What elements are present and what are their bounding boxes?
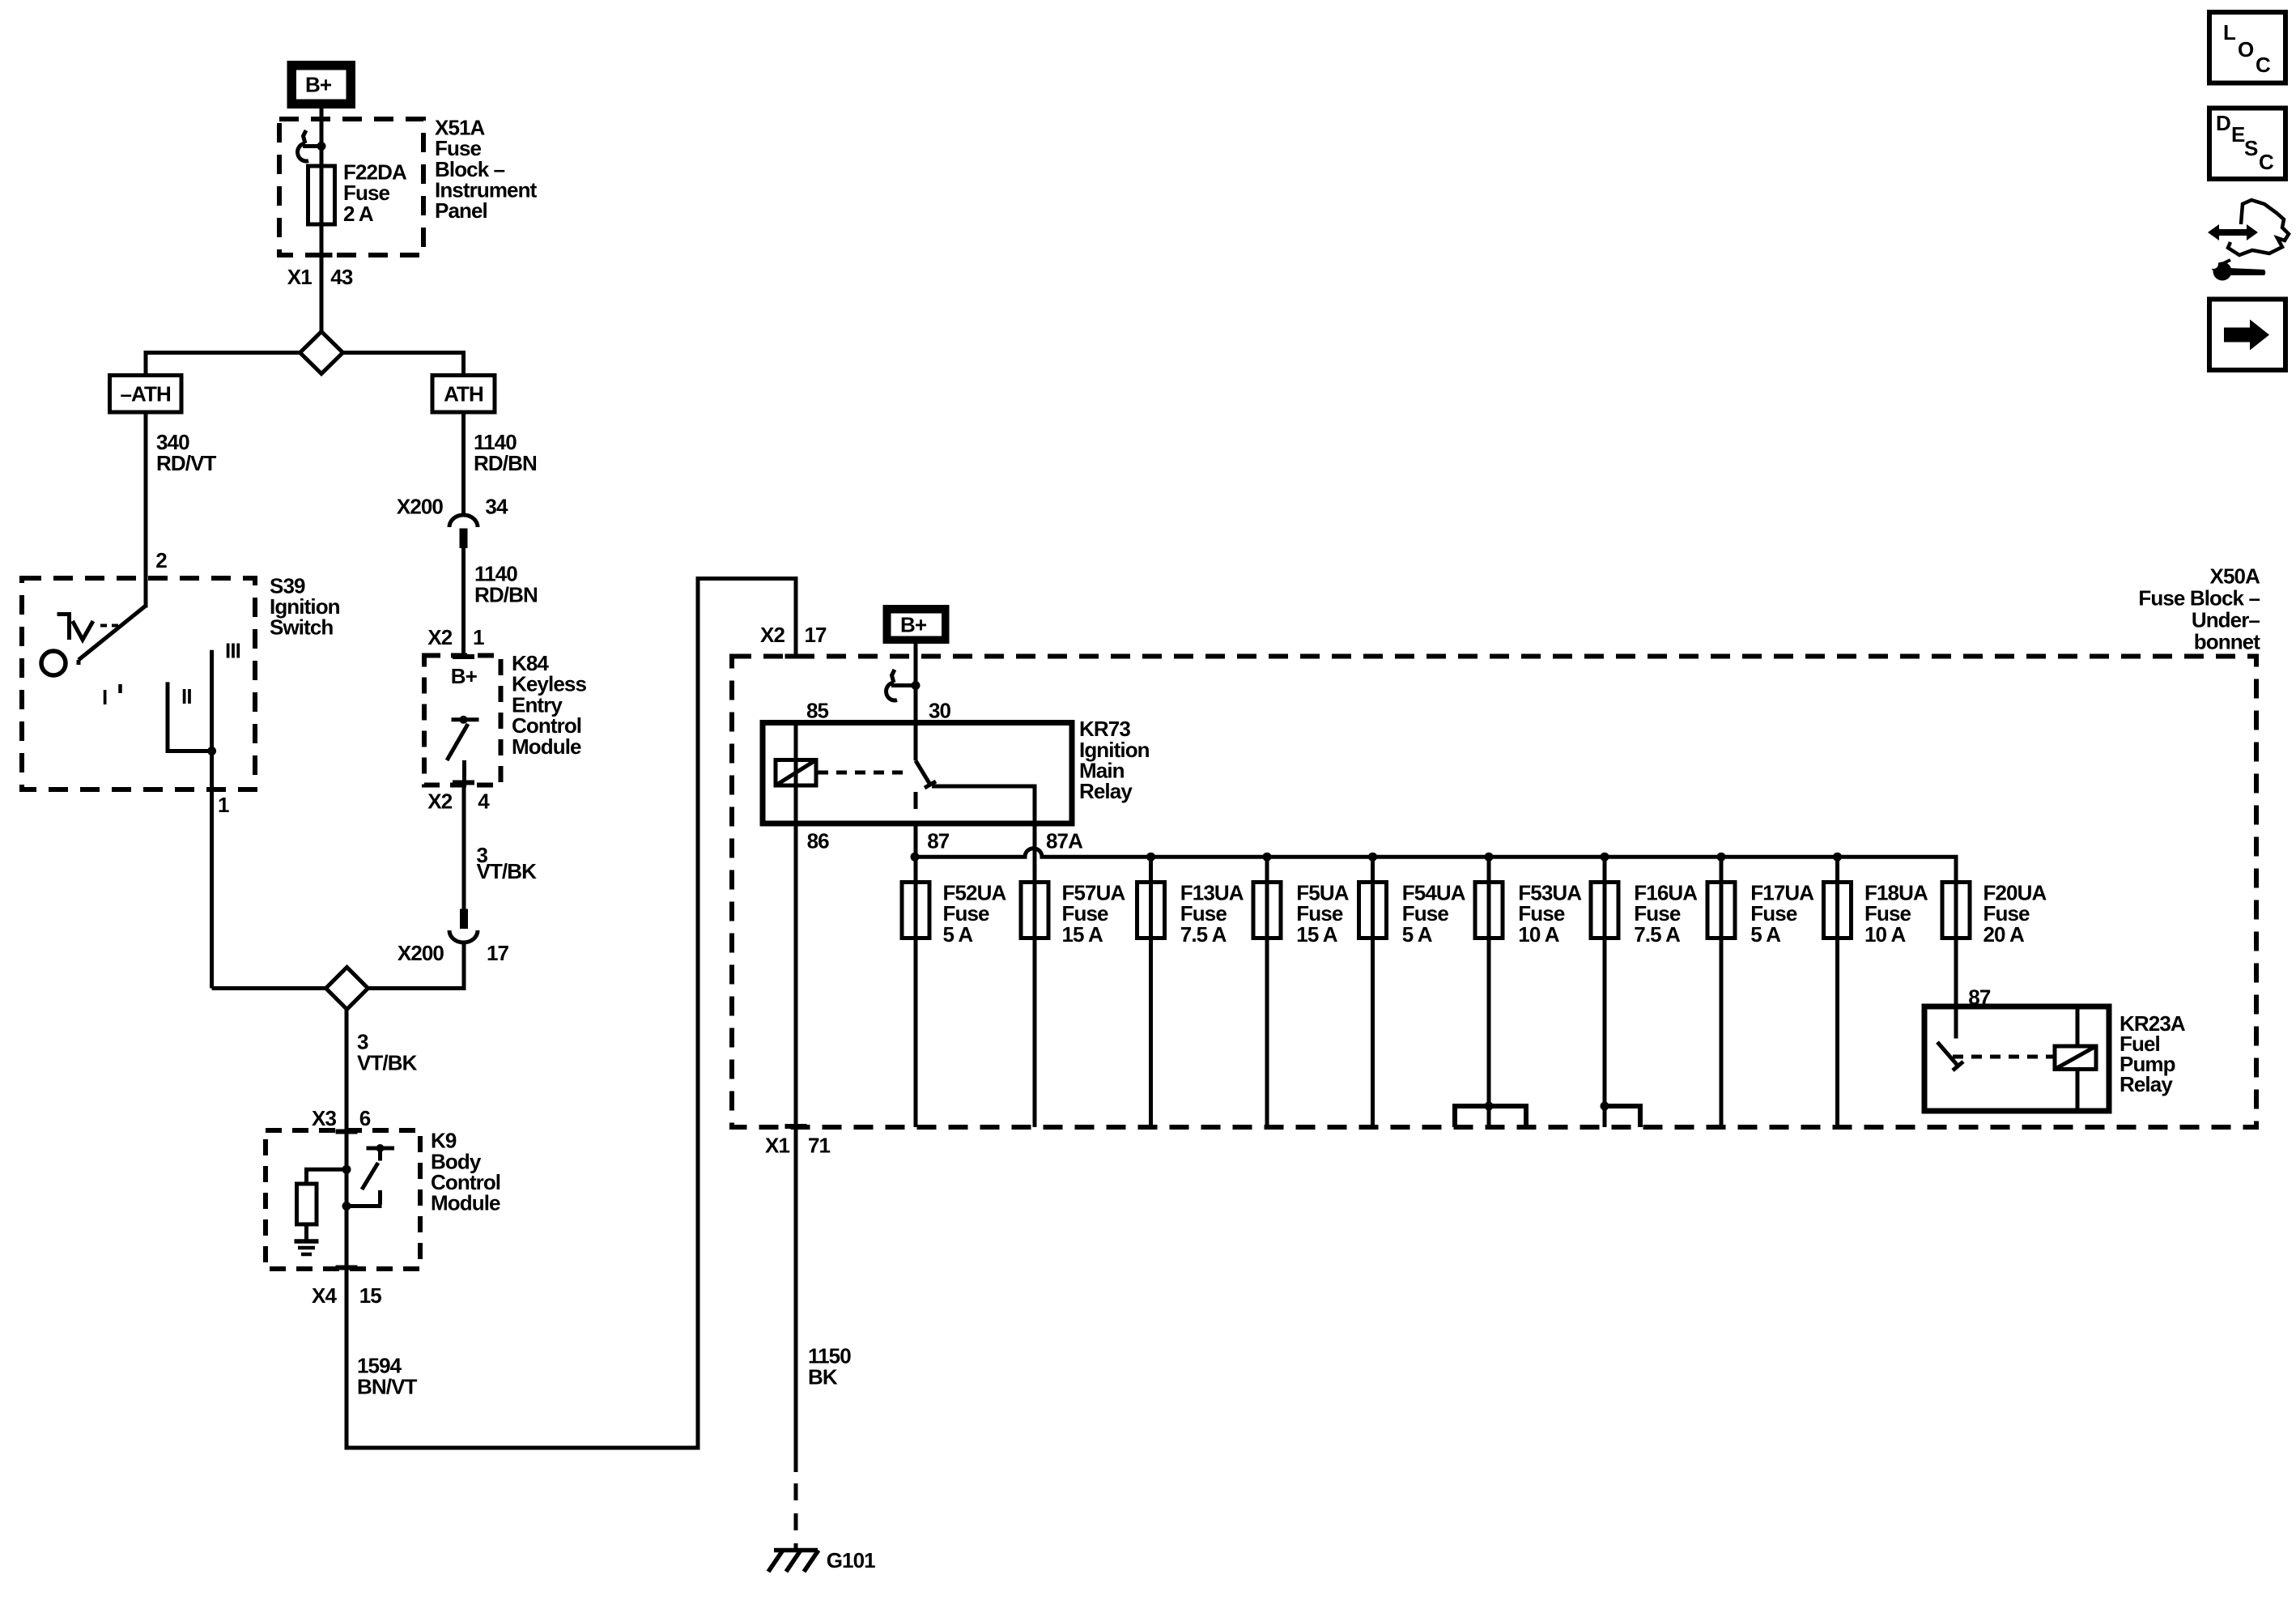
svg-text:7.5 A: 7.5 A [1180, 922, 1227, 947]
svg-text:85: 85 [806, 699, 829, 723]
svg-text:15 A: 15 A [1062, 922, 1103, 947]
KR73 switch fixed contact stub [914, 792, 918, 809]
KR73 contact to pin 87A [932, 786, 1035, 823]
wire label 3 VT/BK (lower) [357, 1030, 418, 1075]
KR23A switch contact tick [1953, 1062, 1963, 1070]
wire label 1140 RD/BN (lower) [474, 562, 538, 607]
svg-text:2 A: 2 A [343, 202, 374, 226]
S39 position III contact line / output wire [210, 650, 214, 989]
svg-text:71: 71 [808, 1134, 831, 1158]
svg-text:34: 34 [485, 495, 508, 519]
wire relay pin 86 to X1-71 [794, 823, 798, 1126]
svg-text:I: I [102, 685, 107, 709]
KR23A coil wire [2076, 1006, 2080, 1111]
label F16UA Fuse 7.5 A [1634, 880, 1698, 946]
K9 junction dot lower [342, 1202, 351, 1211]
KR23A switch arm [1937, 1042, 1958, 1066]
KR73 switch arm [916, 760, 930, 785]
wire fuse F54UA output [1371, 938, 1375, 1128]
svg-text:B+: B+ [451, 664, 478, 688]
svg-text:BN/VT: BN/VT [357, 1374, 418, 1398]
label F17UA Fuse 5 A [1750, 880, 1814, 946]
K9 switch lower contact wire [347, 1190, 382, 1206]
pin label 87 (KR73) [927, 829, 950, 853]
fuse block X50A dashed outline [732, 657, 2256, 1128]
icon box DESC [2209, 109, 2285, 180]
label F13UA Fuse 7.5 A [1180, 880, 1244, 946]
pin label X1 | 43 [287, 265, 353, 289]
K9 internal ground symbol [295, 1241, 319, 1254]
svg-text:BK: BK [808, 1364, 838, 1389]
wire S39 output to splice diamond 2 [212, 986, 326, 990]
wire down to ATH [461, 351, 466, 376]
body control module K9 dashed outline [266, 1130, 420, 1269]
S39 position label I [102, 684, 121, 709]
connector pin tick X3-6 [336, 1130, 358, 1134]
F16UA output fork (double pin) [1605, 1106, 1640, 1127]
K9 switch fixed contact bar [367, 1148, 395, 1161]
label F18UA Fuse 10 A [1864, 880, 1928, 946]
S39 lock position symbol [57, 615, 119, 640]
svg-text:VT/BK: VT/BK [477, 859, 538, 883]
label F5UA Fuse 15 A [1296, 880, 1349, 946]
junction dot pin 87 bus [911, 853, 920, 862]
label X50A Fuse Block - Under-bonnet [2138, 564, 2260, 654]
pin label X1 | 71 [765, 1134, 831, 1158]
svg-text:10 A: 10 A [1864, 922, 1906, 947]
label F52UA Fuse 5 A [943, 880, 1007, 946]
S39 position label II [181, 684, 192, 709]
connector pin tick X1-71 [785, 1124, 807, 1129]
wire fuse F16UA output [1603, 938, 1607, 1128]
S39 position label III [225, 639, 240, 663]
wire bus through fuse F5UA [1265, 857, 1269, 939]
pin label 87 (KR23A) [1968, 985, 1991, 1010]
pin label 1 (S39) [218, 793, 229, 817]
wire fuse F20UA to relay KR23A pin 87 [1954, 938, 1958, 1007]
svg-text:4: 4 [478, 789, 490, 814]
S39 position II contact line [168, 682, 212, 751]
connector pin tick X2-4 [453, 781, 474, 785]
pin label 87A (KR73) [1046, 829, 1083, 853]
svg-text:B+: B+ [900, 613, 927, 637]
wire bus through fuse F13UA [1149, 857, 1153, 939]
wire label 3 VT/BK (upper) [477, 843, 538, 883]
K84 switch fixed contact bar [452, 717, 479, 721]
svg-text:G101: G101 [827, 1548, 875, 1572]
wire bus through fuse F16UA [1603, 857, 1607, 939]
junction dot bus tap F5UA [1263, 853, 1272, 862]
svg-text:Module: Module [431, 1191, 500, 1215]
icon box arrow (next page) [2209, 300, 2285, 371]
fuse F16UA symbol [1591, 883, 1618, 938]
svg-text:43: 43 [330, 265, 353, 289]
svg-text:X50A: X50A [2210, 564, 2261, 589]
connector pin tick X1-43 [311, 253, 333, 257]
junction dot S39 output [207, 747, 216, 755]
label F54UA Fuse 5 A [1402, 880, 1466, 946]
wire B+ to X51A fuse block [320, 109, 324, 121]
wire label 340 RD/VT [156, 430, 217, 475]
svg-text:S: S [2244, 136, 2258, 160]
junction dot bus tap F53UA [1485, 853, 1494, 862]
wire K9 output run to fuse block X2-17 [347, 579, 796, 1449]
fuse F17UA symbol [1707, 883, 1735, 938]
power symbol B+ (fuse block feed) [883, 605, 950, 644]
label S39 Ignition Switch [270, 573, 340, 639]
pin label X2 | 4 (K84 bottom) [427, 789, 490, 814]
wire label 1150 BK [808, 1344, 851, 1389]
junction dot bus tap F54UA [1368, 853, 1377, 862]
KR23A coil winding symbol [2055, 1046, 2096, 1070]
svg-text:Switch: Switch [270, 615, 333, 640]
icon vehicle profile with arrow and wrench [2208, 200, 2289, 281]
fuse F57UA symbol [1021, 883, 1048, 938]
icon box LOC [2209, 12, 2285, 83]
pin label X3 | 6 (K9 top) [312, 1106, 371, 1130]
power symbol B+ battery feed (top left) [287, 61, 356, 109]
wire ATH to connector X200-34 [461, 412, 466, 515]
wire relay pin 87A to fuse F57UA [1033, 823, 1037, 939]
K9 input wire [345, 1131, 349, 1270]
svg-text:VT/BK: VT/BK [357, 1050, 418, 1074]
svg-text:Relay: Relay [1079, 779, 1133, 803]
wire bus through fuse F18UA [1835, 857, 1839, 939]
svg-text:30: 30 [929, 699, 951, 723]
junction dot bus tap F13UA [1146, 853, 1155, 862]
KR23A coil-switch link (dashed) [1953, 1055, 2053, 1059]
svg-text:17: 17 [487, 941, 509, 965]
wire bus through fuse F54UA [1371, 857, 1375, 939]
junction dot at B+ feed [912, 681, 921, 690]
battery feed hook symbol (fuse block) [887, 670, 916, 700]
ground symbol G101 [768, 1551, 818, 1572]
KR23A switch pin87 lead [1954, 1006, 1958, 1039]
label K84 Keyless Entry Control Module [512, 651, 586, 759]
keyless entry control module K84 dashed outline [424, 656, 501, 785]
fuse F18UA symbol [1824, 883, 1852, 938]
pin label X2 | 17 (fuse block) [760, 623, 827, 647]
wire X1-71 to ground (solid) [794, 1126, 798, 1472]
K9 switch arm [362, 1163, 378, 1189]
svg-text:1: 1 [218, 793, 229, 817]
K9 junction dot upper [342, 1165, 351, 1174]
svg-text:X4: X4 [312, 1283, 337, 1308]
pin label 2 (S39) [155, 548, 167, 572]
svg-text:15 A: 15 A [1296, 922, 1337, 947]
svg-text:RD/BN: RD/BN [474, 582, 538, 606]
wire fuse F18UA output [1835, 938, 1839, 1128]
svg-text:15: 15 [359, 1283, 382, 1308]
svg-text:87: 87 [927, 829, 950, 853]
svg-text:–ATH: –ATH [121, 382, 171, 406]
svg-text:5 A: 5 A [1402, 922, 1433, 947]
wire splice to right branch [343, 351, 465, 355]
K9 resistor to ground wire [304, 1224, 308, 1241]
svg-text:ATH: ATH [444, 382, 483, 406]
S39 contact circle [41, 651, 66, 675]
svg-text:C: C [2256, 53, 2271, 77]
svg-text:II: II [181, 684, 192, 709]
svg-text:C: C [2259, 150, 2274, 174]
svg-text:X200: X200 [398, 941, 444, 965]
splice diamond S (top) [300, 332, 343, 374]
connector pin tick X4-15 [336, 1266, 358, 1270]
junction dot bus tap F16UA [1601, 853, 1609, 862]
ignition main relay KR73 outline [763, 723, 1072, 824]
K9 resistor branch wire [307, 1169, 347, 1184]
label KR23A Fuel Pump Relay [2120, 1011, 2186, 1096]
fuse F22DA symbol [308, 166, 335, 224]
K84 output pin wire [462, 760, 466, 785]
wire fuse F57UA output [1033, 938, 1037, 1128]
fuel pump relay KR23A outline [1924, 1006, 2109, 1111]
label F22DA Fuse 2 A [343, 160, 407, 226]
fuse F20UA symbol [1942, 883, 1970, 938]
label F53UA Fuse 10 A [1518, 880, 1582, 946]
junction dot F16UA fork [1601, 1102, 1609, 1111]
svg-text:6: 6 [359, 1106, 371, 1130]
connector X200 pin 34 (upper half) [449, 515, 478, 548]
K84 internal B+ label [451, 664, 478, 688]
fuse block X51A dashed outline [279, 119, 423, 255]
wire fuse F17UA output [1720, 938, 1724, 1128]
fuse F52UA symbol [902, 883, 929, 938]
KR73 coil-switch link (dashed) [818, 771, 910, 775]
svg-text:20 A: 20 A [1983, 922, 2025, 947]
svg-text:X2: X2 [427, 625, 452, 649]
svg-text:X1: X1 [287, 265, 312, 289]
wire X200 to K84 pin X2-1 [461, 548, 466, 656]
KR73 switch pin30 lead [914, 723, 918, 761]
wire to ground (dashed) [794, 1483, 798, 1550]
node box ATH [432, 376, 495, 413]
fuse F54UA symbol [1359, 883, 1387, 938]
wire through fuse F22DA [320, 121, 324, 255]
wire K84 to connector X200-17 [462, 785, 466, 909]
svg-text:III: III [225, 639, 240, 663]
svg-text:X200: X200 [397, 495, 444, 519]
junction dot bus tap F18UA [1833, 853, 1842, 862]
wire B+ down to relay pin 30 [914, 644, 918, 723]
wire X1-43 to splice diamond [320, 255, 324, 332]
label X51A Fuse Block - Instrument Panel [435, 115, 538, 223]
svg-text:10 A: 10 A [1518, 922, 1559, 947]
svg-text:Panel: Panel [435, 198, 487, 223]
wire fuse F53UA output [1487, 938, 1491, 1128]
svg-text:O: O [2238, 37, 2254, 62]
svg-text:X2: X2 [427, 789, 452, 814]
svg-text:X2: X2 [760, 623, 784, 647]
svg-text:D: D [2216, 111, 2230, 135]
pin label X4 | 15 (K9 bottom) [312, 1283, 381, 1308]
wire splice to left branch [146, 351, 300, 355]
connector label X200 | 34 (upper) [397, 495, 508, 519]
svg-text:RD/VT: RD/VT [156, 451, 217, 475]
splice diamond S (lower) [326, 968, 368, 1010]
fuse F5UA symbol [1253, 883, 1281, 938]
svg-text:L: L [2223, 20, 2236, 45]
svg-text:RD/BN: RD/BN [474, 451, 537, 475]
label K9 Body Control Module [431, 1129, 500, 1215]
K9 switch junction dot [376, 1144, 385, 1152]
label F57UA Fuse 15 A [1062, 880, 1126, 946]
wire label 1140 RD/BN (upper) [474, 430, 537, 475]
svg-text:X3: X3 [312, 1106, 336, 1130]
svg-text:Module: Module [512, 734, 581, 759]
svg-text:2: 2 [155, 548, 167, 572]
junction dot F53UA fork [1485, 1102, 1494, 1111]
wire relay pin 87 to bus [914, 823, 918, 939]
S39 switch movable arm [79, 606, 146, 665]
connector pin tick X2-1 [453, 654, 474, 659]
svg-text:bonnet: bonnet [2194, 630, 2260, 654]
wire X200-17 to splice diamond 2 [368, 943, 464, 989]
wire splice 2 down to K9 pin X3-6 [345, 1007, 349, 1131]
pin label X2 | 1 (K84 top) [427, 625, 484, 649]
fuse supply bus with hop over 87A [915, 849, 1956, 939]
K84 switch arm [447, 724, 468, 760]
junction dot bus tap F17UA [1717, 853, 1726, 862]
svg-text:X1: X1 [765, 1134, 789, 1158]
KR73 coil wire pin85-86 [794, 723, 798, 824]
wire fuse F52UA output [914, 938, 918, 1128]
svg-text:5 A: 5 A [943, 922, 974, 947]
fuse F13UA symbol [1137, 883, 1165, 938]
connector X200 pin 17 (lower half) [449, 909, 478, 943]
wire fuse F13UA output [1149, 938, 1153, 1128]
ground label G101 [827, 1548, 875, 1572]
svg-text:7.5 A: 7.5 A [1634, 922, 1681, 947]
connector pin tick X2-17 [785, 654, 807, 659]
svg-text:5 A: 5 A [1750, 922, 1781, 947]
svg-text:86: 86 [807, 829, 830, 853]
connector label X200 | 17 (lower) [398, 941, 509, 965]
K9 pull-down resistor [297, 1184, 317, 1224]
battery feed hook symbol inside X51A [298, 130, 321, 161]
label F20UA Fuse 20 A [1983, 880, 2047, 946]
pin label 86 (KR73) [807, 829, 830, 853]
wire down to -ATH [144, 351, 148, 376]
svg-text:Fuse Block –: Fuse Block – [2138, 586, 2260, 611]
pin label 30 (KR73) [929, 699, 951, 723]
F53UA output fork (double pin) [1455, 1106, 1526, 1127]
wire bus through fuse F17UA [1720, 857, 1724, 939]
wire -ATH to ignition switch pin 2 [144, 412, 148, 608]
svg-text:87A: 87A [1046, 829, 1083, 853]
label KR73 Ignition Main Relay [1079, 717, 1150, 803]
KR73 switch contact tick [925, 781, 936, 788]
wire bus through fuse F53UA [1487, 857, 1491, 939]
svg-text:Under–: Under– [2192, 608, 2260, 632]
svg-text:17: 17 [805, 623, 827, 647]
svg-text:E: E [2231, 122, 2245, 147]
junction dot at X51A feed [317, 142, 326, 151]
ignition switch S39 dashed outline [22, 578, 255, 789]
fuse F53UA symbol [1475, 883, 1503, 938]
wire fuse F5UA output [1265, 938, 1269, 1128]
KR73 coil winding symbol [776, 760, 816, 786]
svg-text:B+: B+ [305, 73, 332, 97]
node box -ATH [110, 376, 182, 413]
wire label 1594 BN/VT [357, 1354, 418, 1399]
svg-text:Relay: Relay [2120, 1072, 2173, 1096]
pin label 85 (KR73) [806, 699, 829, 723]
svg-text:1: 1 [473, 625, 484, 649]
K84 switch junction dot [460, 716, 468, 724]
